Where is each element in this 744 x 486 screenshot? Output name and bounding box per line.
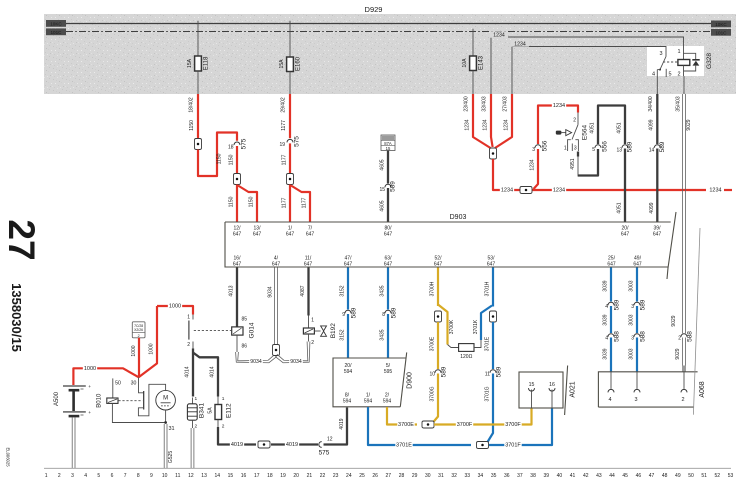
connector 4 of 588 bbox=[605, 331, 620, 342]
svg-text:120Ω: 120Ω bbox=[460, 354, 472, 360]
glow element B341 bbox=[187, 396, 205, 430]
svg-text:5: 5 bbox=[97, 473, 100, 479]
junction marker 9034 bbox=[273, 345, 280, 356]
G328 coil bbox=[677, 48, 689, 78]
svg-text:D929: D929 bbox=[365, 5, 383, 14]
svg-text:X2/26: X2/26 bbox=[134, 328, 143, 332]
svg-text:19: 19 bbox=[279, 142, 285, 148]
fuse E112 5A bbox=[208, 396, 233, 430]
svg-text:3152: 3152 bbox=[340, 329, 346, 340]
connector 5 of 556 bbox=[592, 141, 608, 153]
svg-text:3700E: 3700E bbox=[430, 336, 436, 351]
svg-text:10KC: 10KC bbox=[50, 21, 62, 26]
wire 1234 rail to G328 pin 3 bbox=[511, 40, 666, 94]
svg-text:589: 589 bbox=[441, 366, 448, 377]
ground rail 31 bbox=[112, 403, 174, 432]
svg-text:4: 4 bbox=[652, 72, 655, 78]
wire 1000 riser bbox=[139, 306, 157, 377]
wire 3039 middle bbox=[603, 306, 611, 333]
svg-text:5: 5 bbox=[592, 147, 595, 153]
svg-text:53: 53 bbox=[728, 473, 734, 479]
battery ground lead bbox=[72, 418, 75, 469]
junction marker 1234 bbox=[490, 148, 497, 159]
svg-text:1000: 1000 bbox=[169, 303, 181, 309]
svg-text:5: 5 bbox=[669, 72, 672, 78]
G328 pin 5 bbox=[666, 69, 671, 78]
wire 1234 rail to G328 pin 1 bbox=[490, 31, 684, 94]
svg-text:27/403: 27/403 bbox=[503, 96, 509, 112]
svg-text:+: + bbox=[88, 385, 91, 390]
wire 3701E from D900 pin 1 bbox=[368, 407, 471, 448]
svg-text:3435: 3435 bbox=[380, 329, 386, 340]
svg-text:1234: 1234 bbox=[553, 103, 565, 109]
A021 pin 16 bbox=[549, 382, 555, 408]
resistor 120 ohm bbox=[448, 340, 482, 360]
svg-text:647: 647 bbox=[286, 232, 295, 238]
svg-text:3700E: 3700E bbox=[398, 422, 414, 428]
svg-text:26: 26 bbox=[372, 473, 378, 479]
svg-text:40: 40 bbox=[557, 473, 563, 479]
junction marker 1150 split bbox=[234, 174, 241, 185]
wire 4051 loop bbox=[578, 122, 598, 175]
A068 pin 3 bbox=[634, 372, 640, 403]
E564 terminals 1 and 3 bbox=[564, 140, 578, 152]
wire 3003 middle bbox=[629, 306, 637, 333]
svg-text:4: 4 bbox=[605, 336, 608, 342]
connector 14 of 589 bbox=[649, 141, 666, 153]
A068 pin 4 bbox=[608, 372, 614, 403]
svg-text:6: 6 bbox=[111, 473, 114, 479]
svg-text:5A: 5A bbox=[208, 407, 214, 414]
wire 23/400 bbox=[464, 94, 491, 148]
bottom margin line bbox=[44, 467, 731, 469]
power distribution band D929 bbox=[44, 14, 736, 94]
svg-text:1234: 1234 bbox=[504, 119, 510, 130]
B010 actuator dashed link bbox=[118, 400, 142, 402]
bus wire 101C bbox=[66, 31, 711, 33]
svg-text:18: 18 bbox=[267, 473, 273, 479]
svg-text:2: 2 bbox=[222, 424, 225, 430]
wire 1234 down to rail bbox=[493, 159, 498, 190]
svg-text:7: 7 bbox=[124, 473, 127, 479]
wire 3701H bbox=[485, 268, 493, 307]
svg-text:2: 2 bbox=[573, 118, 576, 124]
svg-text:D900: D900 bbox=[407, 372, 414, 389]
svg-text:647: 647 bbox=[253, 232, 262, 238]
svg-text:589: 589 bbox=[391, 307, 398, 318]
svg-text:M: M bbox=[163, 396, 168, 402]
svg-text:594: 594 bbox=[343, 399, 352, 405]
node label 101C left bbox=[46, 28, 66, 35]
svg-text:4: 4 bbox=[84, 473, 87, 479]
diagram number 1358030/15 bbox=[9, 283, 24, 352]
svg-text:1: 1 bbox=[195, 396, 198, 402]
svg-text:4019: 4019 bbox=[286, 442, 298, 448]
svg-text:27: 27 bbox=[386, 473, 392, 479]
svg-text:30: 30 bbox=[131, 380, 137, 386]
svg-text:15: 15 bbox=[379, 187, 385, 193]
svg-text:1150: 1150 bbox=[248, 196, 254, 207]
svg-text:E160: E160 bbox=[296, 56, 302, 71]
B010 solenoid coil bbox=[97, 393, 119, 408]
G014 actuator dashed link bbox=[194, 330, 231, 332]
svg-text:+: + bbox=[88, 411, 91, 416]
svg-text:1234: 1234 bbox=[553, 187, 565, 193]
svg-text:1234: 1234 bbox=[501, 187, 513, 193]
svg-text:1150: 1150 bbox=[229, 154, 235, 165]
svg-text:A500: A500 bbox=[54, 391, 60, 406]
svg-text:594: 594 bbox=[344, 369, 353, 375]
svg-text:3701G: 3701G bbox=[485, 386, 491, 401]
wire 1177 to pin 7/647 bbox=[291, 186, 310, 222]
svg-text:2: 2 bbox=[681, 397, 684, 403]
starter motor M bbox=[156, 390, 176, 410]
svg-text:3: 3 bbox=[631, 304, 634, 310]
svg-text:556: 556 bbox=[602, 141, 609, 152]
svg-text:647: 647 bbox=[344, 262, 353, 268]
wire 3701G bbox=[485, 374, 493, 443]
wire 4014 to B341 bbox=[185, 349, 193, 397]
svg-text:50: 50 bbox=[115, 380, 121, 386]
svg-text:1: 1 bbox=[311, 318, 314, 324]
svg-text:3: 3 bbox=[659, 51, 662, 57]
wire 9034 to B192 pin 2 bbox=[275, 342, 310, 365]
svg-text:3039: 3039 bbox=[603, 280, 609, 291]
connector 15 of 589 bbox=[379, 181, 396, 193]
connector 19 of 575 bbox=[279, 136, 300, 148]
svg-text:4014: 4014 bbox=[185, 366, 191, 377]
svg-text:15A: 15A bbox=[279, 59, 285, 69]
wire 1000 to G014 switch bbox=[157, 301, 193, 314]
svg-text:4: 4 bbox=[608, 397, 611, 403]
svg-text:9034: 9034 bbox=[268, 286, 274, 297]
svg-text:9034: 9034 bbox=[250, 359, 262, 365]
svg-text:G014: G014 bbox=[249, 322, 256, 338]
svg-text:647: 647 bbox=[306, 232, 315, 238]
svg-text:575: 575 bbox=[319, 450, 330, 457]
connector 10 of 589 bbox=[429, 366, 447, 377]
connector 12 of 575 bbox=[319, 436, 333, 456]
svg-text:3701K: 3701K bbox=[473, 319, 479, 334]
svg-text:4087: 4087 bbox=[300, 285, 306, 296]
wire 1150 loop bbox=[198, 133, 237, 177]
wire 27/403 bbox=[495, 94, 512, 148]
connector 4 of 589 bbox=[605, 299, 620, 310]
svg-text:23/400: 23/400 bbox=[464, 96, 470, 112]
svg-text:32: 32 bbox=[451, 473, 457, 479]
wire 4099 to pin 39/647 bbox=[649, 149, 657, 222]
svg-text:588: 588 bbox=[640, 331, 647, 342]
E564 designation bbox=[582, 125, 589, 141]
svg-text:2: 2 bbox=[311, 340, 314, 346]
svg-text:647: 647 bbox=[304, 262, 313, 268]
svg-text:15: 15 bbox=[386, 146, 391, 151]
svg-text:1177: 1177 bbox=[282, 154, 288, 165]
svg-text:4051: 4051 bbox=[617, 202, 623, 213]
svg-text:18: 18 bbox=[228, 145, 234, 151]
svg-text:589: 589 bbox=[640, 299, 647, 310]
G328 suppression diode bbox=[684, 53, 700, 71]
wire 4019 horizontal bbox=[218, 427, 318, 448]
wire 4014 to E112 bbox=[193, 353, 218, 397]
svg-text:3435: 3435 bbox=[380, 285, 386, 296]
B341 ground lead bbox=[191, 428, 194, 468]
svg-text:588: 588 bbox=[687, 331, 694, 342]
svg-text:589: 589 bbox=[627, 141, 634, 152]
fuse E143 10A bbox=[462, 29, 485, 94]
connector 3 of 588 bbox=[631, 331, 646, 342]
svg-text:43: 43 bbox=[596, 473, 602, 479]
svg-text:3: 3 bbox=[574, 145, 577, 151]
svg-text:51: 51 bbox=[701, 473, 707, 479]
G328 pin 4 bbox=[652, 70, 657, 94]
ground lead G525 bbox=[164, 424, 174, 468]
svg-text:20: 20 bbox=[293, 473, 299, 479]
svg-text:31: 31 bbox=[169, 426, 175, 432]
wire 4087 bbox=[300, 268, 314, 329]
wire 1177 to marker bbox=[282, 143, 290, 173]
svg-text:EL006025: EL006025 bbox=[6, 447, 11, 467]
svg-text:3: 3 bbox=[532, 147, 535, 153]
svg-text:3701E: 3701E bbox=[485, 336, 491, 351]
svg-text:647: 647 bbox=[384, 262, 393, 268]
svg-text:4951: 4951 bbox=[570, 158, 576, 169]
connector A021 bbox=[519, 366, 577, 416]
switch E564 bbox=[572, 113, 578, 140]
small print EL006025 bbox=[6, 447, 11, 467]
svg-text:1177: 1177 bbox=[281, 120, 287, 131]
svg-text:16: 16 bbox=[549, 382, 555, 388]
junction marker 1177 split bbox=[287, 174, 294, 185]
wire 1150 to pin 13/647 bbox=[238, 186, 257, 222]
svg-text:647: 647 bbox=[621, 232, 630, 238]
svg-text:29/402: 29/402 bbox=[281, 97, 287, 113]
junction marker on rail bbox=[520, 187, 532, 194]
svg-text:3: 3 bbox=[71, 473, 74, 479]
A068 pin 2 bbox=[681, 372, 687, 403]
svg-text:647: 647 bbox=[434, 262, 443, 268]
connector 18 of 575 bbox=[228, 138, 248, 151]
svg-text:9029: 9029 bbox=[675, 348, 681, 359]
svg-text:34: 34 bbox=[478, 473, 484, 479]
junction marker 3700F bbox=[422, 421, 434, 428]
svg-text:47: 47 bbox=[649, 473, 655, 479]
svg-text:10: 10 bbox=[429, 372, 435, 378]
connector 2 of 588 on 9029 bbox=[678, 331, 693, 342]
wire 3003 upper bbox=[629, 268, 637, 302]
svg-text:10A: 10A bbox=[462, 58, 468, 68]
wire 29/402 bbox=[281, 94, 290, 138]
svg-text:101C: 101C bbox=[51, 30, 63, 35]
label D903 bbox=[450, 214, 467, 221]
junction marker 3700 bbox=[435, 311, 442, 322]
svg-text:575: 575 bbox=[294, 136, 301, 147]
G328 designation bbox=[706, 53, 713, 69]
svg-text:3039: 3039 bbox=[603, 348, 609, 359]
svg-text:4099: 4099 bbox=[649, 202, 655, 213]
terminal 30 feed bbox=[131, 377, 144, 393]
svg-text:15: 15 bbox=[228, 473, 234, 479]
svg-text:589: 589 bbox=[614, 299, 621, 310]
svg-text:594: 594 bbox=[364, 399, 373, 405]
wire 3700G bbox=[430, 374, 438, 424]
svg-text:9029: 9029 bbox=[686, 119, 692, 130]
svg-text:4051: 4051 bbox=[590, 122, 596, 133]
connector box D903 bbox=[225, 212, 676, 279]
svg-text:9: 9 bbox=[342, 312, 345, 318]
junction marker 3701F bbox=[477, 442, 489, 449]
D903 lower row pin labels bbox=[233, 256, 642, 268]
svg-text:4099: 4099 bbox=[648, 119, 654, 130]
E564 horn symbol bbox=[556, 130, 572, 136]
svg-text:8: 8 bbox=[137, 473, 140, 479]
svg-text:E112: E112 bbox=[226, 403, 233, 418]
svg-text:B010: B010 bbox=[97, 393, 103, 408]
svg-text:21: 21 bbox=[307, 473, 313, 479]
junction marker 4019 bbox=[258, 441, 270, 448]
svg-text:1150: 1150 bbox=[189, 120, 195, 131]
svg-text:85: 85 bbox=[242, 317, 248, 323]
node label 101C right bbox=[711, 29, 731, 36]
svg-text:4605: 4605 bbox=[380, 159, 386, 170]
svg-text:575: 575 bbox=[241, 138, 248, 149]
svg-text:33/403: 33/403 bbox=[482, 96, 488, 112]
G328 pin 3 bbox=[659, 51, 666, 57]
svg-text:44: 44 bbox=[609, 473, 615, 479]
svg-text:3700G: 3700G bbox=[430, 386, 436, 401]
svg-text:35: 35 bbox=[491, 473, 497, 479]
wire 3003 lower bbox=[629, 338, 637, 372]
wire 34/400 bbox=[648, 94, 657, 144]
svg-text:14: 14 bbox=[649, 148, 655, 154]
svg-text:101C: 101C bbox=[716, 30, 728, 35]
svg-text:3701F: 3701F bbox=[505, 442, 521, 448]
svg-text:G328: G328 bbox=[706, 53, 713, 69]
wire 4951 bbox=[570, 152, 578, 177]
wire 3700E bbox=[430, 322, 438, 369]
wire 1000 to battery bbox=[73, 364, 138, 385]
svg-text:1234: 1234 bbox=[709, 187, 721, 193]
svg-text:A068: A068 bbox=[699, 381, 706, 397]
svg-text:4013: 4013 bbox=[229, 285, 235, 296]
svg-text:1: 1 bbox=[222, 396, 225, 402]
svg-text:11: 11 bbox=[485, 372, 490, 378]
relay socket reference box 87A/15 bbox=[381, 135, 395, 151]
D903 upper row pin labels bbox=[233, 226, 662, 238]
svg-text:4605: 4605 bbox=[380, 200, 386, 211]
svg-text:1000: 1000 bbox=[131, 345, 137, 356]
wire 3700K branch bbox=[438, 305, 455, 345]
wire 4051 to pin 20/647 bbox=[617, 149, 625, 222]
solenoid valve B192 bbox=[303, 323, 337, 346]
fuse E160 15A bbox=[279, 21, 302, 94]
svg-text:15A: 15A bbox=[187, 58, 193, 68]
svg-text:1234: 1234 bbox=[483, 119, 489, 130]
svg-text:10KC: 10KC bbox=[715, 22, 727, 27]
svg-text:34/400: 34/400 bbox=[648, 96, 654, 112]
wire 1150 to marker bbox=[229, 146, 237, 174]
A021 pin 15 bbox=[529, 382, 535, 408]
svg-text:647: 647 bbox=[384, 232, 393, 238]
svg-text:10: 10 bbox=[162, 473, 168, 479]
svg-text:3003: 3003 bbox=[629, 348, 635, 359]
svg-text:49: 49 bbox=[675, 473, 681, 479]
svg-text:1: 1 bbox=[45, 473, 48, 479]
svg-text:3700K: 3700K bbox=[449, 319, 455, 334]
svg-text:1150: 1150 bbox=[228, 196, 234, 207]
svg-text:1000: 1000 bbox=[149, 343, 155, 354]
svg-text:647: 647 bbox=[633, 262, 642, 268]
B010 output loop to motor bbox=[138, 384, 165, 416]
svg-text:4051: 4051 bbox=[617, 122, 623, 133]
svg-text:3039: 3039 bbox=[603, 314, 609, 325]
svg-text:647: 647 bbox=[607, 262, 616, 268]
svg-text:38: 38 bbox=[530, 473, 536, 479]
wire 3435 to D900 bbox=[380, 314, 388, 358]
svg-text:1: 1 bbox=[187, 314, 190, 320]
junction marker 3701 bbox=[490, 311, 497, 322]
svg-text:2: 2 bbox=[138, 334, 140, 338]
svg-text:1234: 1234 bbox=[465, 119, 471, 130]
svg-text:3003: 3003 bbox=[629, 280, 635, 291]
connector 8 of 589 bbox=[382, 307, 397, 318]
wire 3700E from D900 pin 2 bbox=[387, 407, 417, 428]
svg-text:3700H: 3700H bbox=[430, 281, 436, 296]
svg-text:15: 15 bbox=[529, 382, 535, 388]
svg-text:19: 19 bbox=[280, 473, 286, 479]
svg-text:4019: 4019 bbox=[339, 418, 345, 429]
label D929 bbox=[365, 5, 383, 14]
svg-text:16: 16 bbox=[241, 473, 247, 479]
bus wire 10KC bbox=[66, 23, 711, 25]
svg-text:647: 647 bbox=[233, 232, 242, 238]
svg-text:E143: E143 bbox=[479, 55, 485, 70]
svg-text:4019: 4019 bbox=[231, 442, 243, 448]
svg-text:556: 556 bbox=[542, 140, 549, 151]
svg-text:12: 12 bbox=[188, 473, 194, 479]
svg-text:8: 8 bbox=[382, 312, 385, 318]
svg-text:2: 2 bbox=[58, 473, 61, 479]
svg-text:3003: 3003 bbox=[629, 314, 635, 325]
fuse reference box bbox=[132, 322, 145, 338]
node label 10KC right bbox=[711, 21, 731, 28]
svg-text:3701E: 3701E bbox=[396, 442, 412, 448]
node label 10KC left bbox=[46, 20, 66, 27]
svg-text:17: 17 bbox=[254, 473, 260, 479]
wire 1234 over to E564 pin 2 bbox=[538, 101, 578, 144]
svg-text:45: 45 bbox=[622, 473, 628, 479]
svg-text:595: 595 bbox=[384, 369, 393, 375]
wire 1234 riser to connector 3 bbox=[529, 149, 538, 189]
connector 13 of 589 bbox=[616, 141, 633, 153]
svg-text:2: 2 bbox=[678, 336, 681, 342]
wire 3701F to A021 pin 16 bbox=[489, 408, 552, 448]
svg-text:2: 2 bbox=[187, 342, 190, 348]
connector 11 of 589 bbox=[485, 366, 503, 377]
svg-text:33: 33 bbox=[464, 473, 470, 479]
wire 3701E bbox=[485, 322, 493, 369]
wire 9029 lower bbox=[675, 338, 685, 372]
svg-text:42: 42 bbox=[583, 473, 589, 479]
svg-text:1150: 1150 bbox=[217, 153, 223, 164]
svg-text:1177: 1177 bbox=[301, 197, 307, 208]
wire 4605 to pin 80/647 bbox=[380, 188, 388, 222]
connector 3 of 589 bbox=[631, 299, 646, 310]
svg-text:13: 13 bbox=[201, 473, 207, 479]
G328 actuator dashed link bbox=[663, 61, 678, 63]
svg-text:1: 1 bbox=[677, 49, 680, 55]
svg-text:52: 52 bbox=[715, 473, 721, 479]
